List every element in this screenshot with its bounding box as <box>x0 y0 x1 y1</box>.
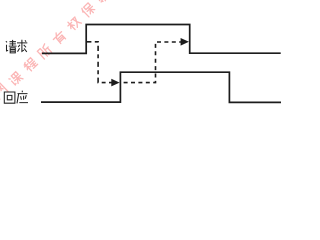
dashed connector: response rise to request fall <box>120 42 182 83</box>
request signal waveform (solid) <box>42 25 281 54</box>
glyph 应 <box>17 91 28 104</box>
watermark char 有 <box>51 30 67 46</box>
response signal waveform (solid) <box>41 72 281 102</box>
arrowhead into response rising edge <box>111 79 119 87</box>
watermark char 程 <box>23 57 38 72</box>
watermark char 课 <box>9 71 24 86</box>
glyph 求 <box>17 40 27 52</box>
watermark char 网 (partial at left edge) <box>0 83 8 99</box>
glyph 回 <box>4 92 15 103</box>
glyph 请 <box>6 41 8 51</box>
watermark char 权 <box>66 16 82 31</box>
label 请求 (request) <box>6 40 27 53</box>
dashed connector: request rise to response rise <box>86 42 111 83</box>
label 回应 (response) <box>4 91 28 104</box>
watermark char 保 <box>81 2 97 18</box>
watermark char 所 <box>37 44 53 60</box>
watermark diagonal text 网课程所有权保护 (pink) <box>0 0 110 99</box>
watermark char 护 (mostly off-canvas top) <box>95 0 110 4</box>
arrowhead into request falling edge <box>181 38 189 46</box>
